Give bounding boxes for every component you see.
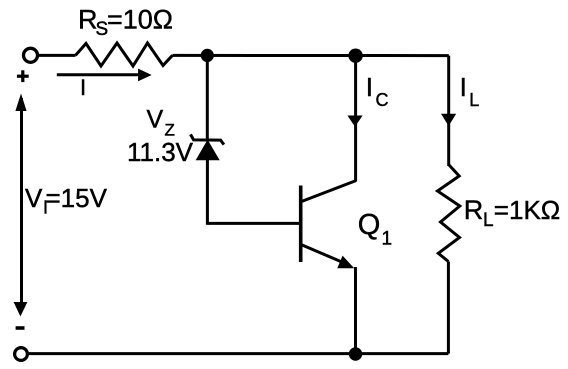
svg-text:C: C <box>376 90 389 110</box>
source V_I arrowhead up <box>15 94 26 112</box>
plus sign <box>17 75 29 78</box>
node junction dot C (emitter to rail) <box>349 347 362 360</box>
svg-text:L: L <box>483 210 494 231</box>
transistor Q1 emitter arrowhead <box>338 257 352 268</box>
svg-text:Q: Q <box>358 209 381 241</box>
source V_I arrow line <box>20 98 23 311</box>
transistor Q1 base bar <box>299 186 303 263</box>
transistor Q1 emitter line <box>302 245 344 263</box>
svg-text:11.3V: 11.3V <box>127 137 194 167</box>
svg-text:V: V <box>147 106 164 134</box>
wire zener bottom to base <box>206 158 209 225</box>
wire top rail <box>173 54 449 57</box>
wire R_L to bottom rail <box>447 262 450 354</box>
svg-text:L: L <box>469 90 479 110</box>
svg-text:=1KΩ: =1KΩ <box>494 195 560 225</box>
terminal - output (open circle) <box>15 348 28 361</box>
resistor R_S <box>76 43 173 66</box>
svg-text:I: I <box>366 72 373 102</box>
wire zener top <box>206 56 209 141</box>
label V_Z <box>147 106 175 140</box>
svg-text:I: I <box>460 72 467 102</box>
label R_S=10ohm <box>78 5 173 41</box>
node junction dot A <box>201 49 214 62</box>
svg-text:=15V: =15V <box>46 183 108 213</box>
zener diode V_Z cathode bar <box>191 134 224 144</box>
current arrow I_C head <box>347 116 362 127</box>
minus sign <box>16 326 25 330</box>
wire top-left <box>39 54 76 57</box>
resistor R_L <box>438 165 460 262</box>
label R_L=1Kohm <box>464 195 560 231</box>
wire bottom rail <box>28 352 448 355</box>
svg-text:I: I <box>80 75 86 100</box>
zener diode V_Z triangle (anode) <box>197 141 219 160</box>
wire base <box>207 222 299 225</box>
label Q_1 <box>358 209 392 250</box>
node junction dot B <box>348 49 362 63</box>
svg-text:R: R <box>464 195 484 225</box>
label I_C <box>366 72 389 110</box>
label V_I=15V <box>25 183 108 218</box>
terminal + input (open circle) <box>24 48 38 62</box>
wire collector diagonal into Q1 <box>302 181 356 202</box>
svg-text:1: 1 <box>382 229 393 250</box>
current arrow I (under R_S) <box>57 73 140 76</box>
label I_L <box>460 72 480 110</box>
current arrow I_L head <box>441 114 456 126</box>
wire right vertical (load branch) <box>447 56 450 166</box>
wire emitter vertical <box>354 267 357 354</box>
svg-text:=10Ω: =10Ω <box>107 5 173 35</box>
wire collector vertical <box>354 56 357 182</box>
svg-text:V: V <box>25 183 43 213</box>
source V_I arrowhead down <box>14 302 28 317</box>
